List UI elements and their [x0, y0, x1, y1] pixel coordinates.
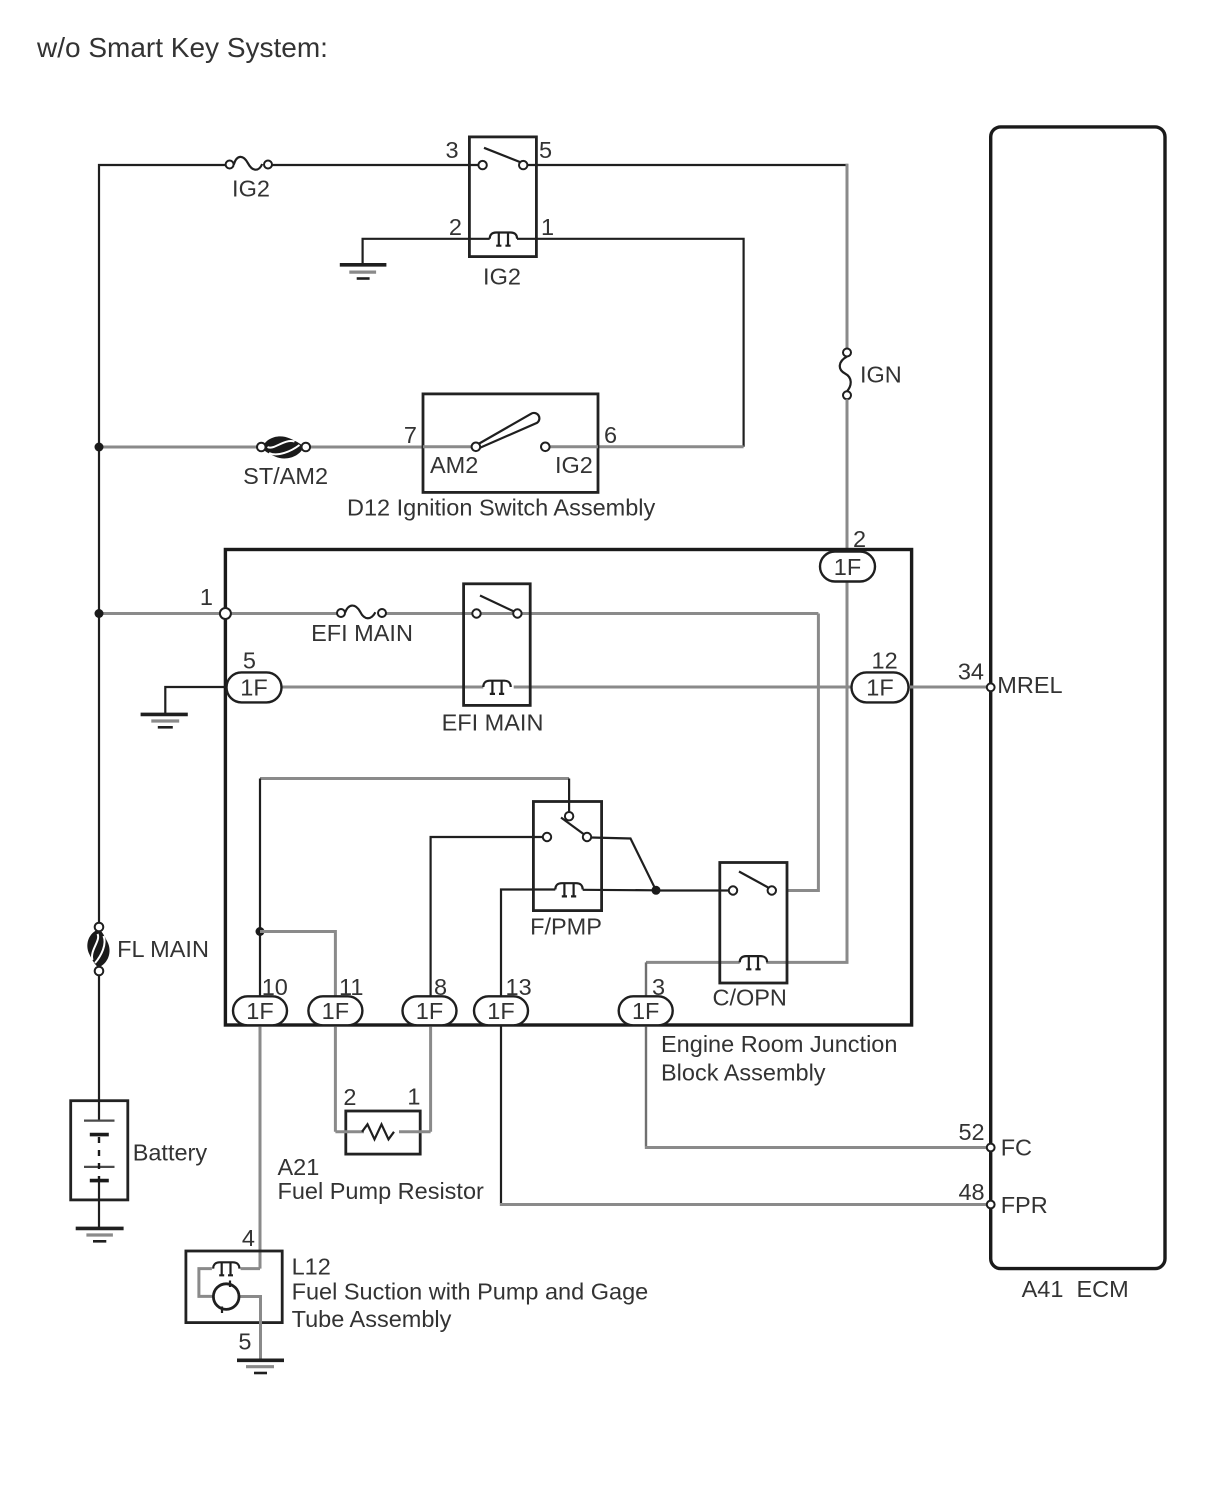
contacts: [472, 609, 480, 617]
pin FPR circle: [987, 1201, 995, 1209]
wire x=260 down through oval 10: [259, 779, 261, 1026]
wire IGN vertical lower to C/OPN coil: [766, 399, 847, 962]
svg-text:AM2: AM2: [430, 452, 478, 478]
oval 1F pin 2: [820, 552, 875, 582]
coil EFI MAIN relay: [483, 681, 510, 694]
svg-text:5: 5: [539, 137, 552, 163]
node dot at (656,890.3): [652, 886, 661, 895]
wire oval 8 to resistor pin 1: [429, 1026, 432, 1132]
svg-text:7: 7: [404, 422, 417, 448]
wire ground branch oval5: [165, 687, 235, 713]
wire oval 10 to L12: [259, 1026, 262, 1269]
wire relay IG2 pin5 to IGN corner: [528, 164, 849, 166]
internal wires: [241, 1267, 260, 1270]
wire FL MAIN to battery: [98, 975, 100, 1121]
svg-text:13: 13: [506, 974, 532, 1000]
fuse IG2: [226, 157, 272, 170]
ignition switch D12: [423, 394, 598, 493]
pin 1 circle on block edge: [220, 608, 231, 619]
oval 1F pin 10: [233, 996, 287, 1025]
oval 1F pin 5: [227, 672, 282, 702]
node dot at (260,931.5): [256, 927, 265, 936]
oval 1F pin 3: [619, 996, 673, 1025]
svg-text:Engine Room Junction: Engine Room Junction: [661, 1031, 897, 1057]
relay C/OPN: [720, 863, 787, 984]
blade: [484, 148, 522, 163]
svg-text:1F: 1F: [240, 675, 267, 701]
svg-text:A21: A21: [278, 1154, 320, 1180]
relay F/PMP: [533, 802, 601, 911]
top pin contact: [565, 812, 573, 820]
svg-text:A41 ECM: A41 ECM: [1022, 1276, 1129, 1302]
wire dot to C/OPN contact: [656, 889, 729, 891]
wire F/PMP coil to oval 13 and down: [501, 890, 555, 1204]
svg-text:1F: 1F: [866, 675, 893, 701]
junction block: [225, 550, 911, 1026]
svg-text:5: 5: [243, 648, 256, 674]
wire diagonal from F/PMP contact: [591, 838, 656, 891]
svg-text:3: 3: [652, 974, 665, 1000]
svg-text:12: 12: [872, 648, 898, 674]
node dot at (99,613.5): [95, 609, 104, 618]
bottom lead: [98, 1181, 100, 1228]
fuel pump L12: [186, 1251, 282, 1360]
contacts: [729, 886, 737, 894]
resistor A21: [335, 1111, 430, 1154]
svg-text:Fuel Suction with Pump and Gag: Fuel Suction with Pump and Gage: [292, 1279, 649, 1305]
zigzag: [362, 1124, 394, 1139]
svg-text:4: 4: [242, 1225, 255, 1251]
svg-text:5: 5: [238, 1329, 251, 1355]
fuse IGN: [840, 349, 851, 400]
pin MREL circle: [987, 683, 995, 691]
svg-text:48: 48: [958, 1179, 984, 1205]
svg-text:IG2: IG2: [232, 176, 270, 202]
svg-text:D12 Ignition Switch Assembly: D12 Ignition Switch Assembly: [347, 495, 656, 521]
battery: [71, 1101, 128, 1228]
node dot at (99,447): [95, 443, 104, 452]
coil F/PMP: [555, 883, 582, 896]
fuse EFI MAIN: [337, 606, 386, 619]
relay IG2: [469, 137, 536, 257]
relay EFI MAIN: [464, 584, 531, 706]
wire x=818 down to C/OPN contact: [787, 614, 818, 891]
wire relay IG2 pin2 to ground: [363, 239, 490, 264]
svg-text:8: 8: [434, 974, 447, 1000]
contact IG2: [541, 443, 550, 452]
oval 1F pin 11: [308, 996, 362, 1025]
svg-text:34: 34: [958, 659, 984, 685]
wire inside D12: [423, 445, 472, 448]
contact 5: [519, 161, 527, 169]
ground L12: [237, 1360, 284, 1373]
svg-text:Battery: Battery: [133, 1140, 208, 1166]
key blade: [478, 413, 540, 448]
blade: [480, 596, 515, 613]
svg-text:Fuel Pump Resistor: Fuel Pump Resistor: [278, 1178, 485, 1204]
wire y=687 MREL line: [235, 686, 483, 689]
svg-text:2: 2: [853, 526, 866, 552]
wire top feed fuse to relay: [272, 164, 478, 166]
svg-text:FPR: FPR: [1001, 1192, 1048, 1218]
svg-text:11: 11: [339, 974, 363, 1000]
coil C/OPN: [740, 956, 767, 969]
svg-text:1: 1: [407, 1084, 420, 1110]
svg-text:Block Assembly: Block Assembly: [661, 1060, 826, 1086]
oval 1F pin 12: [852, 672, 909, 702]
blade: [739, 872, 770, 889]
blade: [561, 818, 584, 835]
wire top feed y=165: [99, 165, 226, 925]
svg-text:6: 6: [604, 422, 617, 448]
plates: [84, 1119, 115, 1121]
svg-text:1F: 1F: [834, 554, 861, 580]
wire branch to oval 11: [260, 932, 335, 1132]
ground battery: [76, 1228, 124, 1241]
wire ST/AM2 feed y=447: [99, 446, 257, 449]
fusible link FL MAIN: [87, 923, 109, 976]
svg-text:3: 3: [446, 137, 459, 163]
svg-text:FC: FC: [1001, 1135, 1032, 1161]
svg-text:1F: 1F: [632, 998, 659, 1024]
contacts: [543, 833, 551, 841]
svg-text:1F: 1F: [322, 998, 349, 1024]
wire IGN vertical upper: [846, 164, 849, 349]
svg-text:F/PMP: F/PMP: [530, 914, 602, 940]
svg-text:L12: L12: [292, 1254, 331, 1280]
svg-text:1F: 1F: [416, 998, 443, 1024]
svg-text:1F: 1F: [487, 998, 514, 1024]
oval 1F pin 13: [474, 996, 528, 1025]
svg-text:EFI MAIN: EFI MAIN: [442, 710, 544, 736]
wire relay IG2 pin1 to D12 pin6: [517, 239, 744, 447]
svg-text:1F: 1F: [246, 998, 273, 1024]
svg-text:1: 1: [541, 214, 554, 240]
dashed center: [98, 1137, 100, 1180]
svg-text:FL MAIN: FL MAIN: [117, 936, 209, 962]
wire FPR horizontal: [500, 1203, 987, 1206]
ground EFI MAIN: [141, 714, 188, 727]
svg-text:IG2: IG2: [483, 264, 521, 290]
pin FC circle: [987, 1144, 995, 1152]
ground IG2 relay: [340, 265, 387, 279]
contact AM2: [472, 443, 481, 452]
svg-text:Tube Assembly: Tube Assembly: [292, 1306, 452, 1332]
coil L12: [213, 1262, 239, 1275]
svg-text:C/OPN: C/OPN: [712, 985, 786, 1011]
svg-text:w/o Smart Key System:: w/o Smart Key System:: [36, 32, 328, 63]
svg-text:2: 2: [343, 1084, 356, 1110]
wire F/PMP top feed: [260, 777, 569, 780]
svg-text:ST/AM2: ST/AM2: [243, 463, 328, 489]
oval 1F pin 8: [403, 996, 457, 1025]
contact 3: [478, 161, 486, 169]
wire C/OPN coil to oval 3 and FC: [646, 961, 740, 964]
fusible link ST/AM2: [257, 436, 310, 458]
svg-text:10: 10: [262, 974, 288, 1000]
wire F/PMP coil right to dot: [583, 889, 656, 892]
wire EFI feed y=613.5: [99, 612, 337, 615]
wire F/PMP left contact to oval 8: [431, 837, 543, 1026]
svg-text:52: 52: [958, 1119, 984, 1145]
svg-text:EFI MAIN: EFI MAIN: [311, 620, 413, 646]
svg-text:1: 1: [200, 584, 213, 610]
svg-text:2: 2: [449, 214, 462, 240]
svg-text:MREL: MREL: [997, 672, 1062, 698]
svg-text:IG2: IG2: [555, 452, 593, 478]
coil IG2 relay: [490, 233, 517, 246]
motor M: [213, 1284, 239, 1310]
svg-text:IGN: IGN: [860, 362, 902, 388]
ECM A41: [987, 127, 1165, 1269]
